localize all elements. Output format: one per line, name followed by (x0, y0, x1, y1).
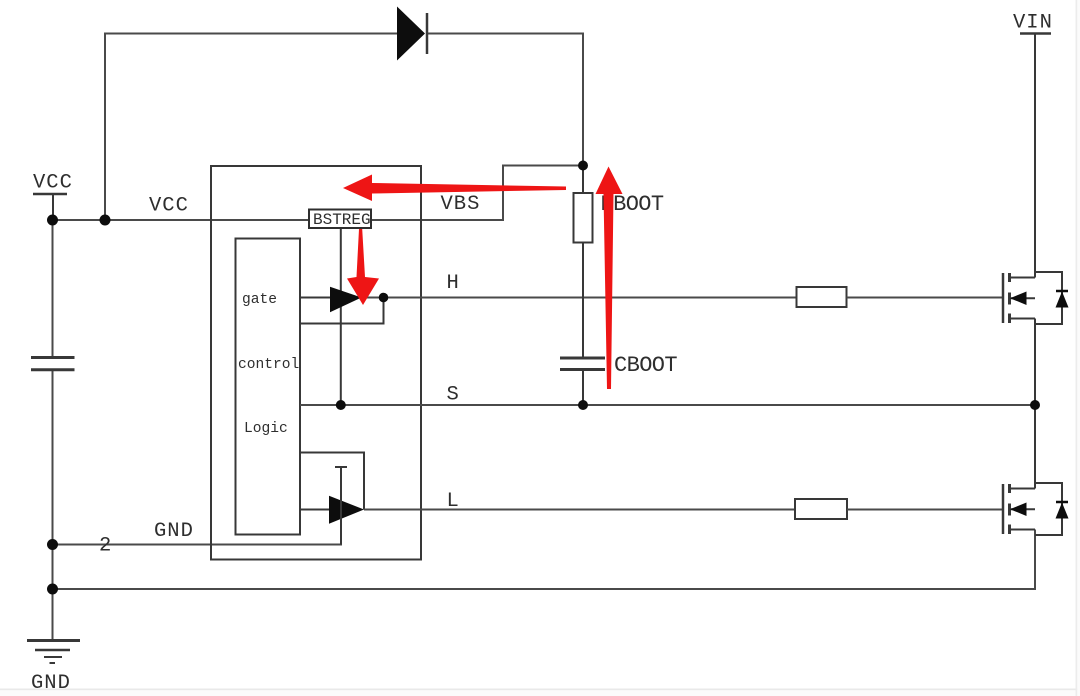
red arrow to VBS (343, 175, 566, 202)
svg-text:Logic: Logic (244, 421, 288, 437)
svg-text:GND: GND (154, 520, 194, 543)
svg-text:VIN: VIN (1013, 12, 1053, 35)
wire VBS from BSTREG to riser (371, 166, 583, 221)
ground (27, 641, 80, 664)
Q1 body diode (1056, 291, 1069, 308)
svg-text:GND: GND (31, 672, 71, 695)
svg-text:VCC: VCC (149, 195, 189, 218)
op-amp high side driver (300, 287, 421, 324)
diode D1 (397, 7, 427, 61)
faint page edge bottom (0, 689, 1080, 691)
red arrow down from BSTREG (347, 229, 379, 305)
svg-text:H: H (447, 272, 460, 295)
wire H to gate (847, 297, 1004, 299)
resistor RBOOT (574, 166, 593, 359)
wire H line (362, 297, 797, 299)
wire top rail left leg (105, 34, 397, 221)
svg-text:2: 2 (99, 535, 112, 558)
wire top rail right of diode (427, 34, 583, 166)
svg-text:S: S (447, 384, 460, 407)
svg-text:VCC: VCC (33, 172, 73, 195)
node S cboot junction (578, 400, 588, 410)
power flag VCC (33, 172, 73, 221)
capacitor CBOOT (560, 358, 605, 405)
wire bottom rail (53, 530, 1036, 590)
node GND pin junction (47, 539, 58, 550)
svg-text:BSTREG: BSTREG (313, 211, 371, 229)
node S bstreg junction (336, 400, 346, 410)
wire L line (364, 509, 795, 511)
gate control logic box (236, 239, 301, 535)
wire left vertical to capacitor (52, 220, 54, 357)
node top-rail junction (100, 215, 111, 226)
svg-text:VBS: VBS (441, 193, 481, 216)
capacitor C1 (31, 358, 75, 370)
transistor Q2 low-side MOSFET (1003, 405, 1062, 535)
red arrow up along CBOOT (596, 167, 623, 390)
BSTREG block (309, 210, 371, 406)
node S mosfet junction (1030, 400, 1040, 410)
wire L to gate (847, 509, 1003, 511)
resistor RG2 (795, 499, 847, 519)
wire feedback H (300, 298, 384, 324)
faint page edge right (1076, 0, 1078, 696)
power flag VIN (1013, 12, 1053, 35)
Q2 body diode (1056, 502, 1069, 519)
svg-text:CBOOT: CBOOT (614, 353, 677, 378)
svg-text:control: control (238, 357, 299, 373)
wire S line (300, 404, 1035, 406)
wire VCC horizontal (53, 219, 310, 221)
node bottom rail junction (47, 584, 58, 595)
resistor RG1 (797, 287, 847, 307)
svg-text:gate: gate (242, 292, 277, 308)
svg-text:L: L (447, 490, 460, 513)
node H junction (379, 293, 389, 303)
IC U1 outline (211, 166, 421, 560)
Q1 body arrow (1010, 292, 1027, 306)
wire capacitor to ground (52, 371, 54, 641)
transistor Q1 high-side MOSFET (1003, 34, 1062, 406)
Q2 body arrow (1010, 503, 1027, 517)
wire GND pin (53, 467, 342, 545)
node boot junction (578, 161, 588, 171)
op-amp low side driver (300, 453, 364, 545)
node VCC-flag junction (47, 215, 58, 226)
